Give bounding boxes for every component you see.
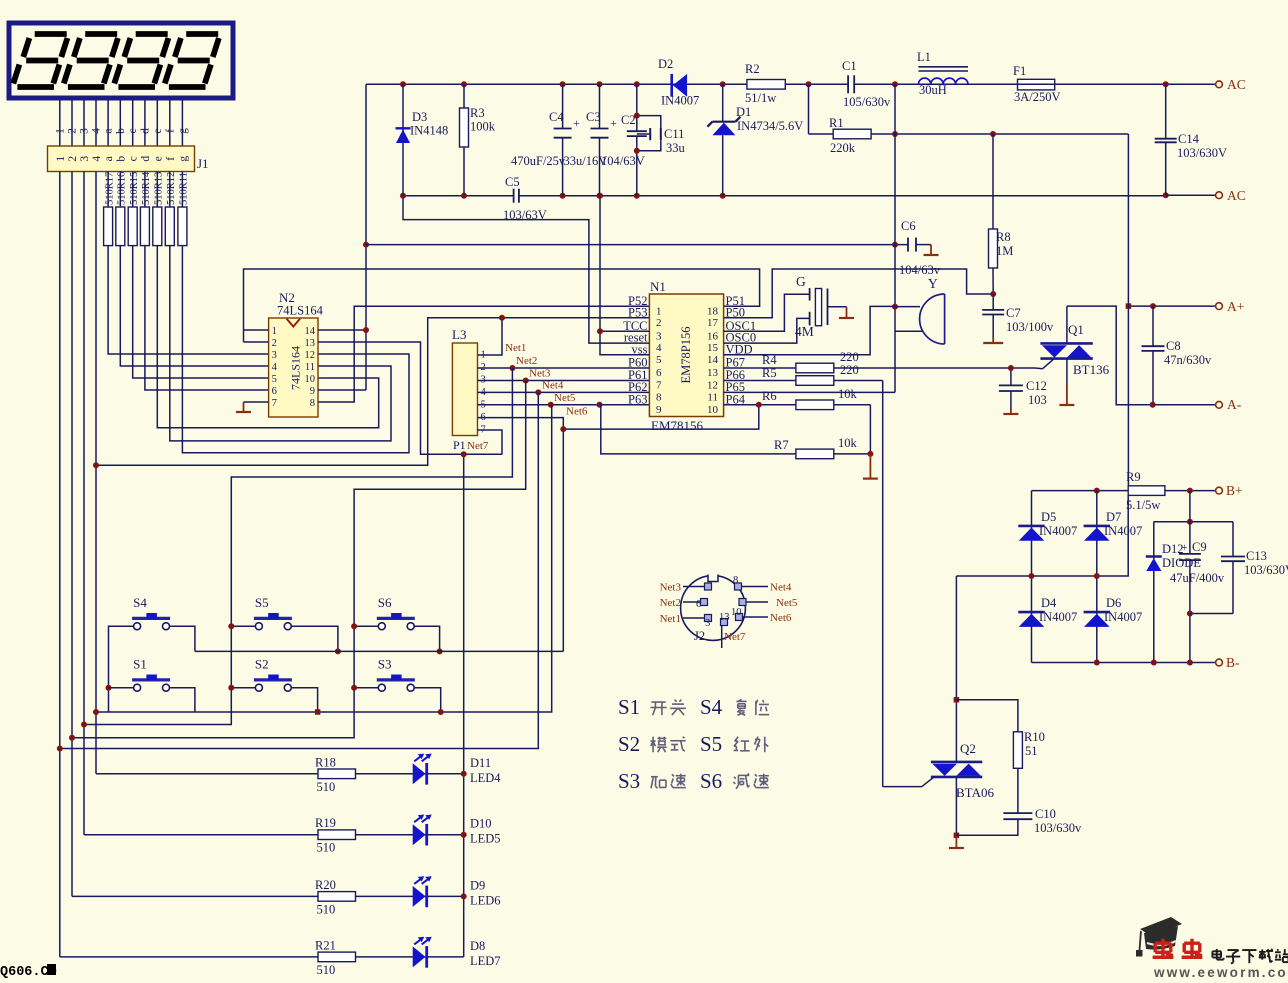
- svg-text:A+: A+: [1227, 299, 1244, 314]
- svg-text:g: g: [177, 128, 189, 134]
- wire P50 to R8/C7 node: [724, 269, 994, 318]
- capacitor C12 103: [999, 368, 1047, 409]
- svg-text:13: 13: [305, 338, 316, 349]
- svg-text:e: e: [152, 128, 164, 133]
- svg-text:+: +: [573, 116, 580, 130]
- svg-text:G: G: [796, 274, 806, 289]
- IC N1 EM78P156: [649, 279, 723, 433]
- svg-text:DIODE: DIODE: [1162, 556, 1201, 570]
- svg-text:LED4: LED4: [470, 771, 501, 785]
- wire net Net4 row: [478, 391, 650, 393]
- svg-text:103/630V: 103/630V: [1177, 146, 1227, 160]
- switch S5: [254, 595, 292, 630]
- svg-text:Net7: Net7: [467, 440, 489, 452]
- svg-text:1: 1: [54, 128, 66, 134]
- svg-text:c: c: [128, 156, 140, 161]
- svg-text:+: +: [1181, 542, 1188, 554]
- wire net Net2 row: [478, 367, 650, 369]
- resistor R13 510: [153, 172, 165, 246]
- svg-text:AC: AC: [1227, 77, 1246, 92]
- junction gnd C2: [634, 193, 640, 199]
- terminal AC top: [1214, 77, 1246, 92]
- wire D3 column to reset: [403, 196, 649, 343]
- resistor R21 510: [315, 938, 356, 977]
- ground below C7: [983, 337, 1003, 343]
- svg-text:S5: S5: [700, 732, 722, 756]
- watermark url: [1153, 965, 1288, 980]
- J2 stub Net2: [660, 597, 701, 609]
- buzzer Y: [895, 276, 945, 344]
- ground below Q2: [949, 835, 964, 848]
- resistor R1 220k: [809, 84, 1129, 155]
- wire B- rail: [1032, 662, 1216, 664]
- svg-text:R3: R3: [470, 106, 485, 120]
- terminal AC bottom: [1166, 188, 1246, 203]
- wire S1 left stub: [109, 687, 135, 689]
- wire B+ to D12/C13 row: [1154, 521, 1233, 523]
- legend S3 S6 row: [618, 769, 769, 793]
- svg-text:D10: D10: [470, 817, 492, 831]
- svg-text:a: a: [103, 128, 115, 133]
- svg-text:www.eeworm.com: www.eeworm.com: [1153, 965, 1288, 978]
- svg-text:103/630v: 103/630v: [1034, 821, 1082, 835]
- terminal B+: [1216, 483, 1243, 498]
- svg-text:L3: L3: [452, 327, 466, 342]
- svg-text:13: 13: [719, 612, 730, 623]
- svg-text:IN4007: IN4007: [1039, 524, 1077, 538]
- svg-text:b: b: [115, 128, 127, 134]
- svg-text:1: 1: [272, 326, 277, 337]
- svg-text:4: 4: [91, 128, 103, 134]
- svg-text:f: f: [165, 157, 177, 161]
- triac Q1 BT136: [1035, 306, 1110, 385]
- junction R8/C7/P50 node: [990, 291, 996, 297]
- wire f to N2 pin11: [170, 246, 391, 441]
- junction rail D1: [720, 81, 726, 87]
- ground right of C6: [924, 245, 939, 255]
- svg-text:Y: Y: [928, 276, 938, 291]
- junction Net2: [509, 365, 515, 371]
- LED D9: [413, 876, 432, 907]
- svg-text:3: 3: [705, 618, 710, 629]
- ground below R7: [863, 454, 878, 479]
- junction C11 bottom: [634, 148, 640, 154]
- svg-text:510: 510: [317, 841, 336, 855]
- resistor R7 10k: [600, 405, 871, 459]
- ground below Q1 MT1: [1059, 385, 1074, 405]
- junction S2 left: [228, 685, 234, 691]
- wire Net4 riser to LED bus: [60, 392, 539, 748]
- wire R5 to Q2 gate: [882, 381, 884, 787]
- svg-text:C5: C5: [505, 175, 520, 189]
- junction D5/D4 mid: [1029, 573, 1035, 579]
- terminal A-: [1216, 397, 1242, 412]
- connector J1: [48, 146, 209, 172]
- junction P64/R6/Net6: [756, 402, 762, 408]
- svg-text:51/1w: 51/1w: [745, 91, 776, 105]
- junction wire4 on switch bus: [93, 709, 99, 715]
- svg-text:51: 51: [1025, 744, 1038, 758]
- svg-text:14: 14: [305, 326, 316, 337]
- switch S2: [254, 657, 292, 692]
- wire GND rail to TCC and vss: [600, 196, 649, 355]
- junction R1 row C1 column: [892, 131, 898, 137]
- svg-text:A-: A-: [1227, 397, 1242, 412]
- ground at crystal: [839, 307, 854, 318]
- svg-text:S4: S4: [700, 695, 723, 719]
- svg-text:C6: C6: [901, 219, 916, 233]
- svg-text:Net2: Net2: [516, 355, 537, 367]
- wire P52 to N2 pin8: [318, 306, 649, 402]
- wire VDD to Y node: [724, 306, 895, 354]
- wire AC top rail: [366, 83, 1214, 85]
- svg-text:8: 8: [733, 575, 738, 586]
- svg-text:C11: C11: [664, 127, 684, 141]
- wire a to N2 pin3: [108, 246, 269, 354]
- 7-segment display module frame: [9, 23, 233, 98]
- J2 stub Net7: [722, 626, 746, 649]
- wire S6 right to bus: [414, 626, 440, 651]
- svg-text:Q2: Q2: [960, 741, 976, 756]
- svg-text:Net3: Net3: [660, 582, 682, 594]
- terminal B-: [1216, 655, 1240, 670]
- svg-text:220: 220: [840, 363, 859, 377]
- wire e to N2 pin10: [157, 246, 378, 428]
- svg-text:c: c: [127, 128, 139, 133]
- svg-text:7: 7: [272, 398, 277, 409]
- wire row R19: [84, 834, 464, 836]
- svg-text:10k: 10k: [838, 387, 858, 401]
- wire Q1 MT2 to A- row: [1067, 306, 1153, 405]
- junction C9/C13 bottom row: [1187, 611, 1193, 617]
- svg-text:P63: P63: [628, 392, 647, 406]
- svg-text:P50: P50: [726, 305, 745, 319]
- svg-text:C7: C7: [1006, 306, 1021, 320]
- svg-text:J2: J2: [694, 629, 705, 643]
- svg-text:14: 14: [707, 354, 719, 366]
- svg-text:2: 2: [67, 128, 79, 134]
- svg-text:R18: R18: [315, 755, 336, 769]
- svg-text:5: 5: [272, 374, 277, 385]
- svg-text:IN4007: IN4007: [1104, 610, 1142, 624]
- junction S5 on bus: [335, 648, 341, 654]
- svg-text:e: e: [152, 156, 164, 161]
- svg-text:10k: 10k: [838, 436, 858, 450]
- svg-text:12: 12: [305, 350, 316, 361]
- label Net3: [529, 368, 551, 380]
- svg-text:Net2: Net2: [660, 597, 681, 609]
- svg-text:13: 13: [707, 367, 719, 379]
- svg-text:LED7: LED7: [470, 954, 501, 968]
- svg-text:C1: C1: [842, 59, 857, 73]
- N2 pins 1-2 tie wire: [244, 330, 269, 342]
- svg-text:R2: R2: [745, 62, 760, 76]
- N1 right pin labels: [726, 294, 757, 407]
- wire net Net1: [96, 318, 649, 466]
- N2 pin13 wire to Net7: [318, 342, 502, 454]
- junction R6/R7 ground node: [867, 451, 873, 457]
- wire bridge AC node row: [956, 496, 1128, 577]
- junction B- D6: [1094, 660, 1100, 666]
- wire S3 left stub: [354, 687, 379, 689]
- svg-text:S2: S2: [618, 732, 640, 756]
- junction rail C1-right: [892, 81, 898, 87]
- wire switch top bus to Net6: [195, 650, 563, 652]
- junction Q2/R10 branch: [954, 697, 960, 703]
- junction gnd R3: [461, 193, 467, 199]
- svg-text:R9: R9: [1126, 470, 1141, 484]
- svg-text:1: 1: [481, 350, 486, 361]
- svg-text:BTA06: BTA06: [956, 785, 994, 800]
- IC N2 74LS164: [269, 290, 324, 417]
- svg-text:S3: S3: [618, 769, 640, 793]
- svg-text:C8: C8: [1166, 339, 1181, 353]
- +5V riser wire: [318, 84, 366, 390]
- svg-text:D2: D2: [658, 57, 673, 71]
- junction S3 left: [351, 685, 357, 691]
- svg-text:D3: D3: [412, 110, 427, 124]
- svg-text:C12: C12: [1026, 379, 1047, 393]
- diode D12 DIODE: [1146, 522, 1201, 663]
- svg-text:Q1: Q1: [1068, 322, 1084, 337]
- capacitor C9 47uF/400v: [1170, 491, 1225, 663]
- wire c to N2 pin5: [133, 246, 269, 378]
- junction rail C2: [634, 81, 640, 87]
- resistor R2 51/1w: [745, 62, 785, 105]
- resistor R18 510: [315, 755, 356, 794]
- svg-text:C13: C13: [1246, 549, 1267, 563]
- svg-text:LED5: LED5: [470, 832, 501, 846]
- J2 stub Net4: [742, 582, 792, 594]
- svg-text:Net7: Net7: [724, 631, 746, 643]
- wire Net3 riser to S6/S3 column: [72, 381, 526, 738]
- svg-text:6: 6: [656, 367, 662, 379]
- svg-text:R7: R7: [774, 438, 789, 452]
- junction A+ main column: [1126, 303, 1132, 309]
- capacitor C7 103/100v: [982, 294, 1054, 337]
- wire S6 left stub: [354, 625, 379, 627]
- junction B- C9: [1187, 660, 1193, 666]
- wire Net5 riser to switch bus: [96, 405, 552, 712]
- wire row R18: [96, 773, 464, 775]
- svg-text:3: 3: [79, 128, 91, 134]
- wire net Net3 row: [478, 380, 650, 382]
- svg-text:IN4734/5.6V: IN4734/5.6V: [737, 119, 803, 133]
- svg-text:IN4148: IN4148: [410, 124, 448, 138]
- wire crystal to ground: [828, 306, 847, 308]
- wire main column R1row to R9: [1127, 134, 1129, 491]
- svg-text:9: 9: [310, 386, 315, 397]
- display pin labels 1-4 a-g: [54, 128, 189, 134]
- svg-text:12: 12: [707, 380, 718, 392]
- svg-text:P53: P53: [628, 305, 647, 319]
- svg-text:D5: D5: [1041, 510, 1056, 524]
- junction S5 left: [228, 623, 234, 629]
- svg-text:F1: F1: [1013, 64, 1026, 78]
- svg-text:L1: L1: [917, 50, 931, 64]
- svg-text:510R17: 510R17: [104, 172, 115, 205]
- svg-text:d: d: [139, 128, 151, 134]
- svg-text:3: 3: [272, 350, 277, 361]
- svg-text:Net1: Net1: [505, 342, 526, 354]
- capacitor C2 104/63V: [601, 84, 647, 195]
- resistor R19 510: [315, 816, 356, 855]
- 7-segment display digits 8888: [13, 34, 219, 87]
- wire row R21: [60, 956, 464, 958]
- junction gnd C4: [560, 193, 566, 199]
- resistor R16 510: [116, 172, 128, 246]
- junction A- C8: [1150, 402, 1156, 408]
- resistor R17 510: [104, 172, 116, 246]
- svg-text:470uF/25v: 470uF/25v: [511, 154, 566, 168]
- svg-text:30uH: 30uH: [919, 83, 947, 97]
- J2 stub Net5: [746, 597, 798, 609]
- switch S4: [132, 595, 170, 630]
- svg-text:C4: C4: [549, 110, 564, 124]
- legend S2 S5 row: [618, 732, 768, 756]
- junction LED5 cathode: [461, 832, 467, 838]
- label Net4: [542, 380, 564, 392]
- wire P65 to Y bottom column: [724, 391, 895, 393]
- svg-text:11: 11: [707, 391, 718, 403]
- svg-text:S6: S6: [378, 595, 392, 610]
- svg-text:g: g: [177, 156, 189, 162]
- label Net1 at L3: [505, 342, 526, 354]
- switch S1: [132, 657, 170, 692]
- svg-text:8: 8: [310, 398, 315, 409]
- wire OSC0 to crystal: [724, 318, 810, 343]
- junction +5V/N2 pin14: [363, 327, 369, 333]
- svg-text:510R15: 510R15: [129, 172, 140, 205]
- label Net7: [467, 440, 489, 452]
- resistor R4 220: [724, 350, 1035, 373]
- junction TCC: [597, 328, 603, 334]
- svg-text:Net4: Net4: [770, 582, 792, 594]
- svg-text:EM78156: EM78156: [651, 418, 704, 433]
- label D9 LED6: [470, 878, 501, 907]
- label Net6: [566, 406, 588, 418]
- svg-text:6: 6: [272, 386, 277, 397]
- ground below C12: [1003, 409, 1018, 414]
- svg-text:R5: R5: [762, 366, 777, 380]
- watermark site name characters: [1212, 949, 1288, 964]
- svg-text:4: 4: [272, 362, 278, 373]
- svg-text:R10: R10: [1024, 730, 1045, 744]
- resonator G body: [795, 274, 828, 339]
- svg-text:510R13: 510R13: [154, 172, 165, 205]
- junction Net4: [535, 389, 541, 395]
- svg-text:IN4007: IN4007: [1039, 610, 1077, 624]
- capacitor C3 33u/16V: [564, 84, 618, 195]
- svg-text:S5: S5: [255, 595, 269, 610]
- wire S1 right to bus: [169, 688, 195, 712]
- junction wire3 on bus: [81, 722, 87, 728]
- svg-text:74LS164: 74LS164: [289, 346, 303, 390]
- resistor R6 10k: [724, 387, 871, 410]
- diode D2 IN4007: [658, 57, 699, 108]
- wire OSC1 to crystal: [724, 294, 810, 331]
- wire +5V column to Y: [894, 84, 896, 392]
- svg-text:LED6: LED6: [470, 893, 501, 907]
- svg-text:EM78P156: EM78P156: [679, 327, 693, 384]
- svg-text:18: 18: [707, 305, 719, 317]
- svg-text:AC: AC: [1227, 188, 1246, 203]
- capacitor C11 33u: [637, 116, 686, 155]
- capacitor C8 47n/630v: [1142, 306, 1212, 405]
- svg-text:5.1/5w: 5.1/5w: [1126, 498, 1160, 512]
- display pin wires to J1: [60, 100, 183, 146]
- resistor R11 510: [178, 172, 190, 246]
- resistor R3 100k: [460, 84, 496, 195]
- junction B+: [1187, 488, 1193, 494]
- svg-text:Net3: Net3: [529, 368, 551, 380]
- diode D3 IN4148: [396, 84, 449, 195]
- wire A- row: [1153, 404, 1216, 406]
- junction wire1 on bus: [57, 746, 63, 752]
- junction Net6 row: [560, 426, 566, 432]
- wire A+ row: [1128, 305, 1215, 307]
- wire net Net7: [464, 430, 502, 957]
- junction Net5: [548, 402, 554, 408]
- label D10 LED5: [470, 817, 501, 846]
- watermark graduation cap: [1136, 917, 1182, 957]
- label Net2: [516, 355, 537, 367]
- wire segments below J1: [108, 172, 182, 208]
- label D11 LED4: [470, 756, 501, 785]
- junction D7/D6 mid: [1094, 573, 1100, 579]
- site text Q606.COM: [0, 964, 57, 980]
- capacitor C13 103/630V: [1190, 522, 1288, 614]
- wire d to N2 pin6: [145, 246, 269, 390]
- diode D5 IN4007: [1018, 491, 1077, 576]
- svg-text:b: b: [115, 156, 127, 162]
- wire S4 left to S1 left: [109, 626, 135, 712]
- junction S3 on bus: [438, 709, 444, 715]
- wire S2 left stub: [231, 687, 256, 689]
- junction gnd C3: [597, 193, 603, 199]
- junction R4/C12 gate node: [1008, 365, 1014, 371]
- svg-text:IN4007: IN4007: [661, 94, 699, 108]
- svg-text:510: 510: [317, 780, 336, 794]
- inductor L1 30uH: [917, 50, 968, 97]
- svg-text:2: 2: [272, 338, 277, 349]
- wire net Net6 to P64: [478, 405, 759, 652]
- wire digit4 vertical: [95, 172, 97, 774]
- zener diode D1 IN4734/5.6V: [707, 84, 803, 195]
- N2 pin7 ground: [236, 402, 269, 412]
- J2 stub Net3: [660, 582, 705, 594]
- junction rail C1-left: [806, 81, 812, 87]
- diode D4 IN4007: [1018, 576, 1077, 663]
- svg-text:D4: D4: [1041, 596, 1057, 610]
- LED D8: [413, 937, 432, 968]
- junction gnd D1: [720, 193, 726, 199]
- wire Net2 riser to S5/S2 column: [84, 368, 512, 725]
- wire S5 right to bus: [291, 626, 338, 651]
- fuse F1 3A/250V: [1013, 64, 1061, 104]
- svg-text:D11: D11: [470, 756, 491, 770]
- svg-text:510R11: 510R11: [179, 172, 190, 205]
- svg-text:S1: S1: [618, 695, 640, 719]
- svg-text:a: a: [103, 156, 115, 161]
- svg-text:R19: R19: [315, 816, 336, 830]
- svg-text:d: d: [140, 156, 152, 162]
- svg-text:D9: D9: [470, 878, 485, 892]
- svg-text:C3: C3: [586, 110, 601, 124]
- svg-text:C10: C10: [1035, 807, 1056, 821]
- svg-text:Net5: Net5: [776, 597, 798, 609]
- svg-text:2: 2: [67, 156, 79, 162]
